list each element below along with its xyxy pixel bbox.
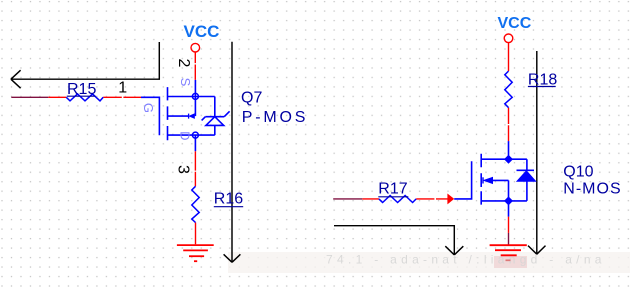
svg-text:G: G — [141, 103, 156, 113]
svg-text:VCC: VCC — [498, 15, 532, 32]
svg-text:Q10: Q10 — [563, 163, 593, 180]
svg-text:S: S — [178, 78, 193, 87]
svg-text:R17: R17 — [378, 181, 407, 198]
svg-text:VCC: VCC — [184, 22, 220, 41]
svg-text:3: 3 — [175, 165, 192, 174]
svg-text:R15: R15 — [67, 81, 96, 98]
svg-text:1: 1 — [118, 79, 127, 96]
svg-text:74.1 - ada-nat /:liangd - a/na: 74.1 - ada-nat /:liangd - a/na — [326, 253, 606, 267]
svg-text:N-MOS: N-MOS — [563, 181, 621, 198]
svg-text:Q7: Q7 — [241, 90, 262, 107]
svg-text:2: 2 — [175, 59, 192, 68]
svg-text:D: D — [177, 131, 192, 140]
svg-text:P-MOS: P-MOS — [242, 109, 308, 126]
svg-text:R16: R16 — [214, 190, 243, 207]
